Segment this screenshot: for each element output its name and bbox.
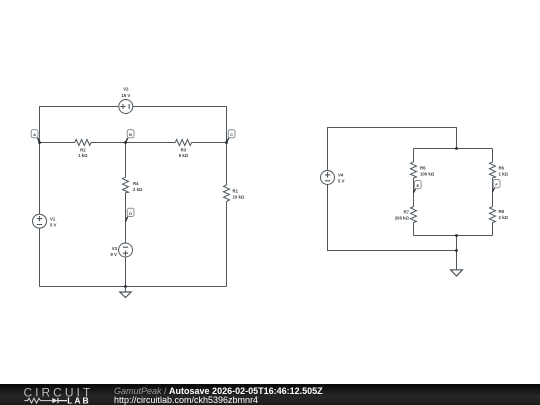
wire: center vertical B to R4 to V2 to bottom	[125, 143, 127, 287]
node F	[493, 180, 501, 192]
footer bar	[0, 384, 540, 405]
resistor R1 10k (vertical right)	[224, 185, 230, 202]
node D	[126, 208, 135, 221]
svg-text:5 kΩ: 5 kΩ	[179, 153, 189, 158]
node B	[126, 130, 135, 143]
node A	[31, 130, 39, 143]
junction dot node A	[38, 141, 40, 143]
svg-text:5 V: 5 V	[338, 179, 345, 184]
svg-text:200 kΩ: 200 kΩ	[395, 216, 410, 221]
resistor R5 100k	[411, 162, 417, 178]
voltage source V3 9V (bottom center)	[119, 243, 133, 257]
ground (left circuit)	[120, 287, 131, 298]
svg-text:1 kΩ: 1 kΩ	[499, 172, 509, 177]
wire: right circuit outer loop	[328, 128, 457, 251]
wire: left circuit bottom rail	[40, 286, 227, 288]
resistor R4 2k (vertical)	[123, 177, 129, 193]
CircuitLab logo	[0, 384, 110, 405]
node E	[414, 181, 422, 193]
wire: inner left branch	[413, 149, 415, 236]
svg-text:9 V: 9 V	[111, 252, 118, 257]
svg-text:15 V: 15 V	[121, 93, 130, 98]
resistor R2 1k	[75, 140, 91, 146]
svg-text:R2: R2	[80, 148, 86, 153]
svg-text:V3: V3	[112, 246, 118, 251]
junction dot node B	[124, 141, 126, 143]
svg-text:V2: V2	[123, 87, 129, 92]
resistor R3 5k	[175, 140, 191, 146]
junction dot right top	[455, 147, 457, 149]
voltage source V4 5V	[321, 171, 335, 185]
svg-text:D: D	[129, 211, 132, 216]
junction dot right inner bottom	[455, 234, 457, 236]
junction dot right bottom rail	[455, 249, 457, 251]
svg-text:A: A	[33, 132, 36, 137]
resistor R6 1k	[490, 162, 496, 178]
svg-text:100 kΩ: 100 kΩ	[420, 172, 435, 177]
svg-text:2 kΩ: 2 kΩ	[499, 215, 509, 220]
logo diode	[52, 398, 57, 403]
svg-text:V1: V1	[50, 217, 56, 222]
resistor R8 2k	[490, 207, 496, 223]
svg-text:R3: R3	[181, 148, 187, 153]
wire: inner rect bottom	[414, 235, 493, 237]
voltage source V1 5V (left)	[33, 214, 47, 228]
footer url line	[114, 395, 258, 405]
svg-text:5 V: 5 V	[50, 223, 57, 228]
wire: right vertical C to R1 to bottom	[226, 143, 228, 287]
wire: inner right branch	[492, 149, 494, 236]
wire: inner rect top	[414, 148, 493, 150]
svg-text:R7: R7	[404, 210, 410, 215]
svg-text:E: E	[416, 183, 419, 188]
footer title line	[114, 386, 323, 396]
logo resistor squiggle	[24, 398, 52, 403]
svg-text:R5: R5	[420, 166, 426, 171]
svg-text:R8: R8	[499, 209, 505, 214]
wire: left circuit horizontal rail A-B-C	[40, 142, 227, 144]
svg-text:R4: R4	[133, 181, 139, 186]
svg-text:10 kΩ: 10 kΩ	[233, 195, 245, 200]
wire: left circuit left vertical (node A to V1 to bottom)	[39, 143, 41, 287]
junction dot bottom center	[124, 285, 126, 287]
voltage source V2 15V (top)	[119, 100, 133, 114]
resistor R7 200k	[411, 207, 417, 223]
svg-text:V4: V4	[338, 173, 344, 178]
wire: left circuit top rail	[40, 107, 227, 143]
svg-text:LAB: LAB	[67, 395, 90, 405]
node C	[227, 130, 236, 143]
junction dot node C	[225, 141, 227, 143]
ground (right circuit)	[451, 270, 463, 276]
svg-text:R6: R6	[499, 166, 505, 171]
svg-text:R1: R1	[233, 189, 239, 194]
svg-text:B: B	[129, 132, 132, 137]
svg-text:C: C	[230, 132, 233, 137]
svg-text:2 kΩ: 2 kΩ	[133, 187, 143, 192]
svg-text:1 kΩ: 1 kΩ	[78, 153, 88, 158]
wire: center stem to bottom rail and ground	[456, 236, 458, 270]
